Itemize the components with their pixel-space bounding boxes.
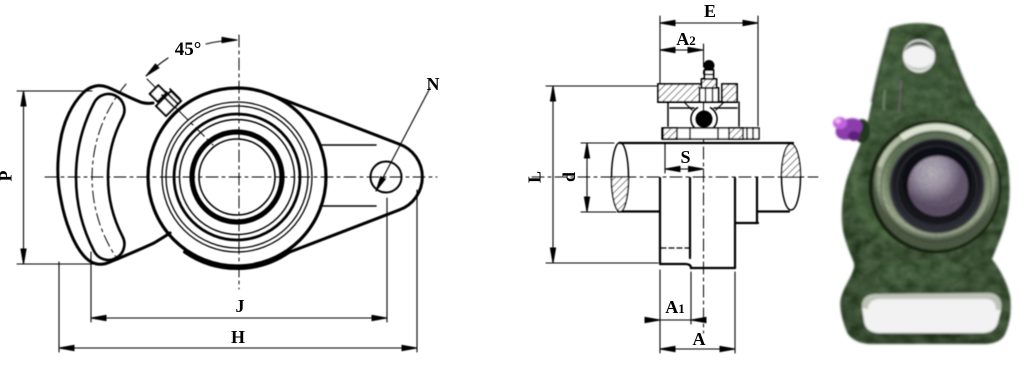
svg-text:d: d	[559, 172, 579, 182]
svg-text:J: J	[236, 296, 245, 316]
svg-text:L: L	[525, 171, 545, 183]
svg-text:P: P	[0, 171, 16, 182]
svg-text:H: H	[231, 327, 245, 347]
svg-text:N: N	[427, 74, 440, 94]
svg-text:A1: A1	[665, 297, 685, 317]
svg-text:S: S	[680, 147, 690, 167]
svg-text:E: E	[704, 1, 716, 21]
svg-text:45°: 45°	[175, 39, 202, 60]
svg-text:A: A	[693, 329, 706, 349]
svg-text:A2: A2	[676, 29, 696, 49]
